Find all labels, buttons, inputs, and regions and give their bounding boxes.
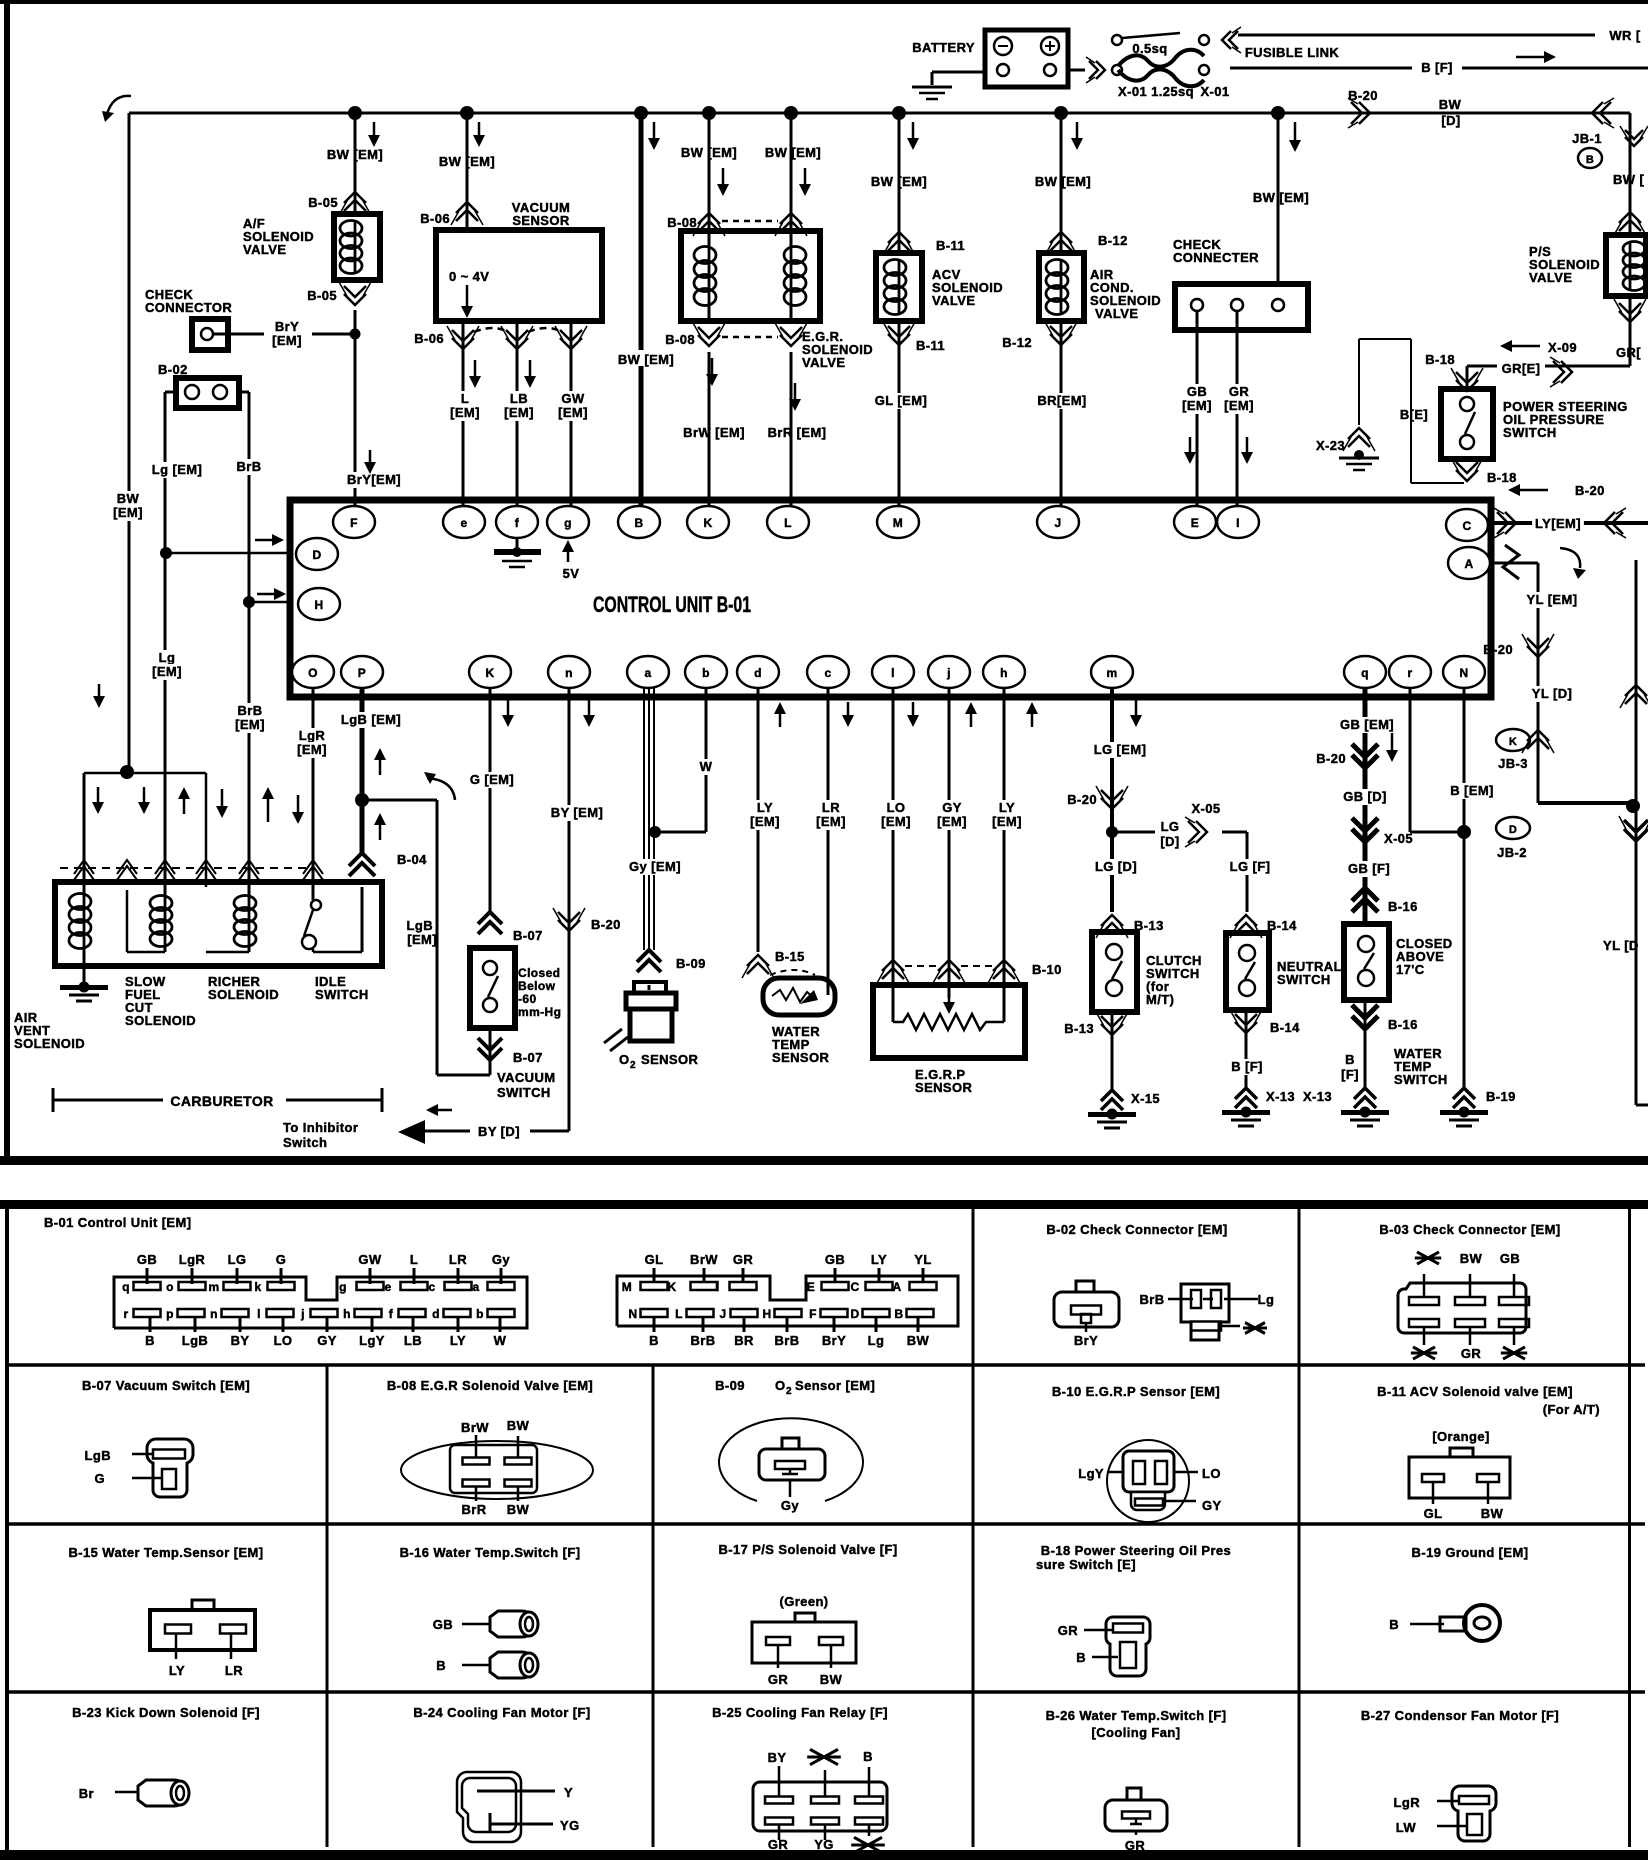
- svg-text:B-15 Water Temp.Sensor [EM]: B-15 Water Temp.Sensor [EM]: [69, 1545, 264, 1560]
- svg-text:GY: GY: [317, 1333, 337, 1348]
- svg-text:LY: LY: [450, 1333, 466, 1348]
- svg-text:LO: LO: [887, 800, 906, 815]
- svg-text:[Cooling Fan]: [Cooling Fan]: [1092, 1725, 1181, 1740]
- svg-text:X-15: X-15: [1131, 1091, 1160, 1106]
- svg-text:r: r: [123, 1307, 128, 1321]
- svg-text:VALVE: VALVE: [1095, 306, 1138, 321]
- svg-text:0 ~ 4V: 0 ~ 4V: [449, 269, 489, 284]
- svg-text:Below: Below: [518, 979, 556, 993]
- svg-text:YL: YL: [914, 1252, 931, 1267]
- svg-text:Switch: Switch: [283, 1135, 327, 1150]
- svg-text:BW [: BW [: [1613, 172, 1644, 187]
- svg-text:k: k: [254, 1280, 261, 1294]
- svg-text:[EM]: [EM]: [235, 717, 265, 732]
- svg-text:Lg [EM]: Lg [EM]: [152, 462, 202, 477]
- svg-text:g: g: [339, 1280, 347, 1294]
- svg-text:BY: BY: [231, 1333, 250, 1348]
- svg-text:LY: LY: [999, 800, 1015, 815]
- svg-text:G: G: [276, 1252, 287, 1267]
- svg-text:B: B: [1389, 1617, 1399, 1632]
- svg-text:d: d: [754, 666, 762, 680]
- svg-text:GL: GL: [1424, 1506, 1443, 1521]
- svg-text:Lg: Lg: [868, 1333, 885, 1348]
- svg-text:J: J: [719, 1307, 726, 1321]
- svg-text:G: G: [94, 1471, 105, 1486]
- svg-text:GR: GR: [1058, 1623, 1079, 1638]
- svg-text:[EM]: [EM]: [937, 814, 967, 829]
- svg-text:BR: BR: [734, 1333, 754, 1348]
- svg-text:BW [EM]: BW [EM]: [327, 147, 383, 162]
- svg-text:H: H: [314, 598, 323, 612]
- svg-text:B-14: B-14: [1270, 1020, 1300, 1035]
- svg-text:mm-Hg: mm-Hg: [518, 1005, 561, 1019]
- svg-text:B-12: B-12: [1098, 233, 1128, 248]
- svg-text:B-20: B-20: [1483, 642, 1513, 657]
- svg-text:LG: LG: [1161, 819, 1180, 834]
- svg-text:B: B: [634, 516, 643, 530]
- svg-text:J: J: [1054, 516, 1061, 530]
- svg-text:BrY[EM]: BrY[EM]: [347, 472, 401, 487]
- svg-text:B: B: [145, 1333, 155, 1348]
- svg-text:B-06: B-06: [420, 211, 450, 226]
- svg-text:BW: BW: [507, 1418, 530, 1433]
- svg-text:a: a: [644, 666, 651, 680]
- svg-text:[EM]: [EM]: [881, 814, 911, 829]
- svg-text:Gy [EM]: Gy [EM]: [629, 859, 681, 874]
- svg-text:LY: LY: [169, 1663, 185, 1678]
- svg-text:O: O: [619, 1052, 630, 1067]
- svg-text:B-16 Water Temp.Switch [F]: B-16 Water Temp.Switch [F]: [400, 1545, 581, 1560]
- svg-text:X-01: X-01: [1200, 84, 1229, 99]
- svg-text:m: m: [1106, 666, 1117, 680]
- svg-text:(For A/T): (For A/T): [1543, 1402, 1600, 1417]
- svg-text:LW: LW: [1396, 1820, 1417, 1835]
- svg-text:BrR: BrR: [461, 1502, 486, 1517]
- svg-text:Gy: Gy: [492, 1252, 511, 1267]
- svg-text:SOLENOID: SOLENOID: [125, 1013, 196, 1028]
- svg-text:E: E: [1191, 516, 1199, 530]
- svg-text:CONNECTOR: CONNECTOR: [145, 300, 232, 315]
- svg-text:GL [EM]: GL [EM]: [875, 393, 927, 408]
- svg-text:5V: 5V: [563, 566, 580, 581]
- svg-text:LgY: LgY: [359, 1333, 385, 1348]
- svg-text:YG: YG: [814, 1837, 834, 1852]
- svg-text:GR: GR: [733, 1252, 754, 1267]
- svg-text:F: F: [350, 516, 358, 530]
- svg-text:Lg: Lg: [159, 650, 176, 665]
- svg-text:I: I: [1236, 516, 1240, 530]
- svg-text:SENSOR: SENSOR: [772, 1050, 830, 1065]
- svg-text:e: e: [384, 1280, 391, 1294]
- svg-text:CONTROL UNIT B-01: CONTROL UNIT B-01: [593, 594, 751, 618]
- svg-text:B-15: B-15: [775, 949, 805, 964]
- svg-text:X-05: X-05: [1191, 801, 1220, 816]
- svg-text:LG [F]: LG [F]: [1230, 859, 1271, 874]
- svg-text:B-27 Condensor Fan Motor [F]: B-27 Condensor Fan Motor [F]: [1361, 1708, 1559, 1723]
- svg-text:M: M: [622, 1280, 632, 1294]
- svg-text:n: n: [210, 1307, 218, 1321]
- svg-text:2: 2: [630, 1060, 636, 1071]
- svg-text:L: L: [675, 1307, 683, 1321]
- svg-text:L: L: [410, 1252, 418, 1267]
- svg-text:B-24 Cooling Fan Motor [F]: B-24 Cooling Fan Motor [F]: [413, 1705, 590, 1720]
- svg-text:B-06: B-06: [414, 331, 444, 346]
- svg-text:VALVE: VALVE: [1529, 270, 1572, 285]
- svg-text:h: h: [343, 1307, 351, 1321]
- svg-text:(Green): (Green): [779, 1594, 828, 1609]
- svg-text:B-01 Control Unit [EM]: B-01 Control Unit [EM]: [44, 1215, 191, 1230]
- svg-text:BrW [EM]: BrW [EM]: [683, 425, 745, 440]
- svg-text:K: K: [485, 666, 494, 680]
- svg-text:B-07: B-07: [513, 928, 543, 943]
- svg-text:LgB [EM]: LgB [EM]: [341, 712, 401, 727]
- svg-text:B: B: [1076, 1650, 1086, 1665]
- svg-text:LB: LB: [404, 1333, 422, 1348]
- svg-text:GY: GY: [1202, 1498, 1222, 1513]
- svg-text:Y: Y: [564, 1785, 573, 1800]
- svg-text:BrW: BrW: [690, 1252, 718, 1267]
- svg-text:BW: BW: [1439, 97, 1462, 112]
- svg-text:B-20: B-20: [1316, 751, 1346, 766]
- svg-text:Sensor [EM]: Sensor [EM]: [795, 1378, 875, 1393]
- svg-text:VACUUM: VACUUM: [497, 1070, 556, 1085]
- svg-text:Gy: Gy: [781, 1498, 800, 1513]
- svg-text:[EM]: [EM]: [1224, 398, 1254, 413]
- svg-text:YL [EM]: YL [EM]: [1527, 592, 1578, 607]
- svg-text:BrB: BrB: [774, 1333, 799, 1348]
- svg-text:A: A: [1464, 557, 1473, 571]
- svg-text:0.5sq: 0.5sq: [1132, 41, 1167, 56]
- svg-text:17'C: 17'C: [1396, 962, 1425, 977]
- svg-text:P: P: [358, 666, 366, 680]
- svg-text:[Orange]: [Orange]: [1432, 1429, 1489, 1444]
- svg-text:[EM]: [EM]: [558, 405, 588, 420]
- svg-text:C: C: [850, 1280, 859, 1294]
- svg-text:W: W: [494, 1333, 507, 1348]
- svg-text:[EM]: [EM]: [750, 814, 780, 829]
- svg-text:LY[EM]: LY[EM]: [1535, 516, 1581, 531]
- svg-text:BW: BW: [1460, 1251, 1483, 1266]
- svg-text:h: h: [1000, 666, 1008, 680]
- svg-text:W: W: [700, 759, 713, 774]
- svg-text:LgB: LgB: [407, 918, 433, 933]
- svg-text:B: B: [894, 1307, 903, 1321]
- svg-text:M/T): M/T): [1146, 992, 1174, 1007]
- svg-text:L: L: [461, 391, 469, 406]
- svg-text:BrB: BrB: [1139, 1292, 1164, 1307]
- svg-text:B-08: B-08: [667, 215, 697, 230]
- svg-text:LR: LR: [822, 800, 840, 815]
- svg-text:To Inhibitor: To Inhibitor: [283, 1120, 358, 1135]
- svg-text:JB-1: JB-1: [1572, 131, 1602, 146]
- svg-text:2: 2: [786, 1386, 792, 1397]
- svg-text:LgR: LgR: [1394, 1795, 1421, 1810]
- svg-text:f: f: [389, 1307, 394, 1321]
- svg-text:N: N: [628, 1307, 637, 1321]
- svg-text:d: d: [432, 1307, 440, 1321]
- svg-text:[D]: [D]: [1160, 834, 1179, 849]
- svg-text:BrR [EM]: BrR [EM]: [768, 425, 827, 440]
- svg-text:B-02 Check Connector [EM]: B-02 Check Connector [EM]: [1046, 1222, 1227, 1237]
- svg-text:GB: GB: [825, 1252, 845, 1267]
- svg-text:GR: GR: [1229, 384, 1250, 399]
- svg-text:B[E]: B[E]: [1400, 407, 1428, 422]
- svg-text:GB [D]: GB [D]: [1343, 789, 1387, 804]
- svg-text:SENSOR: SENSOR: [512, 213, 570, 228]
- svg-text:B-05: B-05: [308, 195, 338, 210]
- svg-text:[EM]: [EM]: [113, 505, 143, 520]
- svg-text:a: a: [472, 1280, 479, 1294]
- svg-text:f: f: [515, 516, 520, 530]
- svg-text:BW [EM]: BW [EM]: [681, 145, 737, 160]
- svg-text:LG [D]: LG [D]: [1095, 859, 1137, 874]
- svg-text:SOLENOID: SOLENOID: [14, 1036, 85, 1051]
- svg-text:SENSOR: SENSOR: [641, 1052, 699, 1067]
- svg-text:CARBURETOR: CARBURETOR: [170, 1093, 273, 1109]
- svg-text:[EM]: [EM]: [816, 814, 846, 829]
- svg-text:YL [D]: YL [D]: [1532, 686, 1572, 701]
- svg-text:l: l: [257, 1307, 261, 1321]
- svg-text:BW [EM]: BW [EM]: [765, 145, 821, 160]
- svg-text:YG: YG: [560, 1818, 580, 1833]
- svg-text:n: n: [565, 666, 573, 680]
- svg-text:g: g: [564, 516, 572, 530]
- svg-text:O: O: [308, 666, 318, 680]
- svg-text:l: l: [891, 666, 895, 680]
- svg-text:LgR: LgR: [299, 728, 326, 743]
- svg-text:[D]: [D]: [1441, 113, 1460, 128]
- svg-text:GR: GR: [1125, 1838, 1146, 1853]
- svg-text:LO: LO: [274, 1333, 293, 1348]
- svg-text:j: j: [946, 666, 951, 680]
- svg-text:I: I: [715, 1280, 719, 1294]
- svg-text:[EM]: [EM]: [1182, 398, 1212, 413]
- svg-text:b: b: [476, 1307, 484, 1321]
- svg-text:SOLENOID: SOLENOID: [208, 987, 279, 1002]
- svg-text:Closed: Closed: [518, 966, 560, 980]
- svg-text:D: D: [312, 548, 321, 562]
- svg-text:sure Switch [E]: sure Switch [E]: [1036, 1557, 1136, 1572]
- svg-text:LgY: LgY: [1078, 1466, 1104, 1481]
- svg-text:LR: LR: [225, 1663, 243, 1678]
- svg-text:D: D: [1509, 824, 1517, 836]
- svg-text:B-19: B-19: [1486, 1089, 1516, 1104]
- svg-text:B-11 ACV Solenoid valve [EM]: B-11 ACV Solenoid valve [EM]: [1377, 1384, 1573, 1399]
- svg-text:LB: LB: [510, 391, 528, 406]
- svg-text:G [EM]: G [EM]: [470, 772, 514, 787]
- svg-text:[EM]: [EM]: [504, 405, 534, 420]
- svg-text:LG [EM]: LG [EM]: [1094, 742, 1147, 757]
- svg-text:GR: GR: [768, 1672, 789, 1687]
- svg-text:K: K: [667, 1280, 676, 1294]
- svg-text:LO: LO: [1202, 1466, 1221, 1481]
- svg-text:B-16: B-16: [1388, 899, 1418, 914]
- svg-text:H: H: [762, 1307, 771, 1321]
- svg-text:GB: GB: [1500, 1251, 1520, 1266]
- svg-text:B-18 Power Steering Oil Pres: B-18 Power Steering Oil Pres: [1041, 1543, 1231, 1558]
- svg-text:B-11: B-11: [936, 238, 965, 253]
- svg-text:B: B: [863, 1749, 873, 1764]
- svg-text:BW: BW: [1481, 1506, 1504, 1521]
- svg-text:BR[EM]: BR[EM]: [1037, 393, 1086, 408]
- svg-text:j: j: [300, 1307, 305, 1321]
- svg-text:p: p: [166, 1307, 174, 1321]
- svg-text:WR [: WR [: [1609, 28, 1640, 43]
- svg-text:B: B: [436, 1658, 446, 1673]
- svg-text:K: K: [703, 516, 712, 530]
- svg-text:B-25 Cooling Fan Relay [F]: B-25 Cooling Fan Relay [F]: [712, 1705, 888, 1720]
- svg-text:B [EM]: B [EM]: [1450, 783, 1494, 798]
- svg-text:q: q: [122, 1280, 130, 1294]
- svg-text:BrY: BrY: [1074, 1333, 1098, 1348]
- svg-text:r: r: [1407, 666, 1412, 680]
- svg-text:GR[E]: GR[E]: [1502, 361, 1541, 376]
- svg-text:B-12: B-12: [1002, 335, 1032, 350]
- svg-text:A: A: [892, 1280, 901, 1294]
- svg-text:e: e: [460, 516, 467, 530]
- svg-text:GY: GY: [942, 800, 962, 815]
- svg-text:B-20: B-20: [591, 917, 621, 932]
- svg-text:GR: GR: [1461, 1346, 1482, 1361]
- svg-text:GW: GW: [561, 391, 585, 406]
- svg-text:BW: BW: [907, 1333, 930, 1348]
- svg-text:B-02: B-02: [158, 362, 188, 377]
- svg-text:BrW: BrW: [461, 1420, 489, 1435]
- svg-text:GB: GB: [137, 1252, 157, 1267]
- svg-text:BrB: BrB: [690, 1333, 715, 1348]
- svg-text:LY: LY: [871, 1252, 887, 1267]
- svg-text:SWITCH: SWITCH: [497, 1085, 551, 1100]
- svg-text:D: D: [850, 1307, 859, 1321]
- svg-text:BW [EM]: BW [EM]: [871, 174, 927, 189]
- svg-text:X-09: X-09: [1548, 340, 1577, 355]
- svg-text:BrB: BrB: [236, 459, 261, 474]
- svg-text:B-19 Ground [EM]: B-19 Ground [EM]: [1412, 1545, 1529, 1560]
- svg-text:LgB: LgB: [182, 1333, 208, 1348]
- svg-text:X-01 1.25sq: X-01 1.25sq: [1118, 84, 1194, 99]
- svg-text:B-13: B-13: [1064, 1021, 1094, 1036]
- svg-text:[EM]: [EM]: [297, 742, 327, 757]
- svg-text:[EM]: [EM]: [407, 932, 437, 947]
- svg-text:GB: GB: [433, 1617, 453, 1632]
- svg-text:GR: GR: [768, 1837, 789, 1852]
- svg-text:-60: -60: [518, 992, 537, 1006]
- svg-text:B-26 Water Temp.Switch [F]: B-26 Water Temp.Switch [F]: [1046, 1708, 1227, 1723]
- svg-text:B: B: [1345, 1052, 1355, 1067]
- svg-text:O: O: [775, 1378, 786, 1393]
- svg-text:M: M: [893, 516, 903, 530]
- svg-text:SWITCH: SWITCH: [315, 987, 369, 1002]
- svg-text:L: L: [784, 516, 792, 530]
- svg-text:B-20: B-20: [1067, 792, 1097, 807]
- svg-text:B-20: B-20: [1575, 483, 1605, 498]
- svg-text:BrY: BrY: [275, 319, 299, 334]
- svg-text:c: c: [824, 666, 831, 680]
- svg-text:B-11: B-11: [916, 338, 945, 353]
- svg-text:SWITCH: SWITCH: [1277, 972, 1331, 987]
- svg-text:BATTERY: BATTERY: [912, 40, 975, 55]
- svg-text:B [F]: B [F]: [1231, 1059, 1263, 1074]
- svg-text:B: B: [1586, 154, 1594, 166]
- svg-text:B-07: B-07: [513, 1050, 543, 1065]
- svg-text:LgR: LgR: [179, 1252, 206, 1267]
- svg-text:B-09: B-09: [715, 1378, 745, 1393]
- svg-text:LG: LG: [228, 1252, 247, 1267]
- svg-text:b: b: [702, 666, 710, 680]
- svg-text:c: c: [428, 1280, 435, 1294]
- svg-text:BW [EM]: BW [EM]: [439, 154, 495, 169]
- svg-text:Br: Br: [79, 1786, 94, 1801]
- svg-text:B-08 E.G.R Solenoid Valve [EM]: B-08 E.G.R Solenoid Valve [EM]: [387, 1378, 593, 1393]
- svg-text:GL: GL: [645, 1252, 664, 1267]
- svg-text:B-18: B-18: [1425, 352, 1455, 367]
- svg-text:B-03 Check Connector [EM]: B-03 Check Connector [EM]: [1379, 1222, 1560, 1237]
- svg-text:B-09: B-09: [676, 956, 706, 971]
- svg-text:B-04: B-04: [397, 852, 427, 867]
- svg-text:o: o: [166, 1280, 174, 1294]
- svg-text:BW: BW: [507, 1502, 530, 1517]
- svg-text:GB: GB: [1187, 384, 1207, 399]
- svg-text:BW [EM]: BW [EM]: [618, 352, 674, 367]
- svg-text:BW: BW: [820, 1672, 843, 1687]
- svg-text:E: E: [807, 1280, 815, 1294]
- svg-text:B [F]: B [F]: [1421, 60, 1453, 75]
- svg-text:GW: GW: [358, 1252, 382, 1267]
- svg-text:GR[: GR[: [1616, 345, 1641, 360]
- svg-text:YL [D: YL [D: [1603, 938, 1639, 953]
- svg-text:B-07 Vacuum Switch [EM]: B-07 Vacuum Switch [EM]: [82, 1378, 250, 1393]
- svg-text:Lg: Lg: [1258, 1292, 1275, 1307]
- svg-text:F: F: [809, 1307, 817, 1321]
- svg-text:B-10: B-10: [1032, 962, 1062, 977]
- svg-text:VALVE: VALVE: [932, 293, 975, 308]
- svg-text:[EM]: [EM]: [992, 814, 1022, 829]
- svg-text:JB-2: JB-2: [1497, 845, 1527, 860]
- svg-text:LY: LY: [757, 800, 773, 815]
- svg-text:B-05: B-05: [307, 288, 337, 303]
- svg-text:BW: BW: [117, 491, 140, 506]
- svg-text:[F]: [F]: [1341, 1067, 1359, 1082]
- svg-text:CONNECTER: CONNECTER: [1173, 250, 1259, 265]
- svg-text:B-16: B-16: [1388, 1017, 1418, 1032]
- svg-text:X-13: X-13: [1266, 1089, 1295, 1104]
- svg-text:GB [F]: GB [F]: [1348, 861, 1390, 876]
- svg-text:VALVE: VALVE: [243, 242, 286, 257]
- svg-text:BY: BY: [768, 1750, 787, 1765]
- svg-text:LR: LR: [449, 1252, 467, 1267]
- svg-text:[EM]: [EM]: [272, 333, 302, 348]
- svg-text:m: m: [208, 1280, 219, 1294]
- svg-text:N: N: [1459, 666, 1468, 680]
- svg-text:SWITCH: SWITCH: [1394, 1072, 1448, 1087]
- svg-text:SWITCH: SWITCH: [1503, 425, 1557, 440]
- svg-text:SENSOR: SENSOR: [915, 1080, 973, 1095]
- svg-text:JB-3: JB-3: [1498, 756, 1528, 771]
- svg-text:B: B: [649, 1333, 659, 1348]
- svg-text:VALVE: VALVE: [802, 355, 845, 370]
- svg-text:B-17 P/S Solenoid Valve [F]: B-17 P/S Solenoid Valve [F]: [718, 1542, 897, 1557]
- svg-text:B-23 Kick Down Solenoid [F]: B-23 Kick Down Solenoid [F]: [72, 1705, 260, 1720]
- svg-text:FUSIBLE LINK: FUSIBLE LINK: [1245, 45, 1340, 60]
- svg-text:X-23: X-23: [1316, 438, 1345, 453]
- svg-text:B-08: B-08: [665, 332, 695, 347]
- svg-text:[EM]: [EM]: [450, 405, 480, 420]
- svg-text:BY [D]: BY [D]: [478, 1124, 520, 1139]
- svg-text:B-18: B-18: [1487, 470, 1517, 485]
- svg-text:BrB: BrB: [237, 703, 262, 718]
- svg-text:LgB: LgB: [85, 1448, 111, 1463]
- svg-text:B-10 E.G.R.P Sensor [EM]: B-10 E.G.R.P Sensor [EM]: [1052, 1384, 1220, 1399]
